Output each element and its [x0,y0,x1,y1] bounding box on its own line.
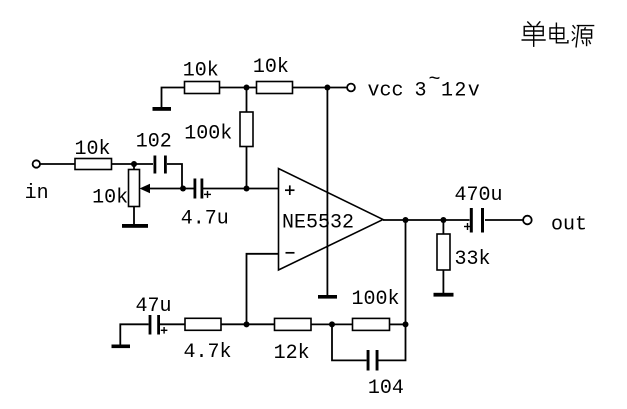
svg-text:10k: 10k [183,60,219,83]
svg-text:470u: 470u [455,184,503,207]
svg-text:10k: 10k [75,138,111,161]
svg-text:out: out [551,214,587,237]
svg-text:3: 3 [415,80,427,103]
svg-text:10k: 10k [253,56,289,79]
svg-text:vcc: vcc [368,80,404,103]
svg-text:4.7k: 4.7k [184,341,232,364]
svg-text:10k: 10k [92,187,128,210]
svg-text:100k: 100k [352,288,400,311]
svg-text:47u: 47u [136,295,172,318]
svg-text:100k: 100k [184,122,232,145]
svg-text:102: 102 [136,130,172,153]
svg-text:12k: 12k [274,342,310,365]
svg-text:NE5532: NE5532 [282,212,354,235]
svg-text:4.7u: 4.7u [181,208,229,231]
svg-text:12v: 12v [441,80,481,103]
svg-text:33k: 33k [455,248,491,271]
svg-text:104: 104 [368,377,404,400]
svg-text:~: ~ [429,69,441,92]
svg-text:in: in [25,182,49,205]
